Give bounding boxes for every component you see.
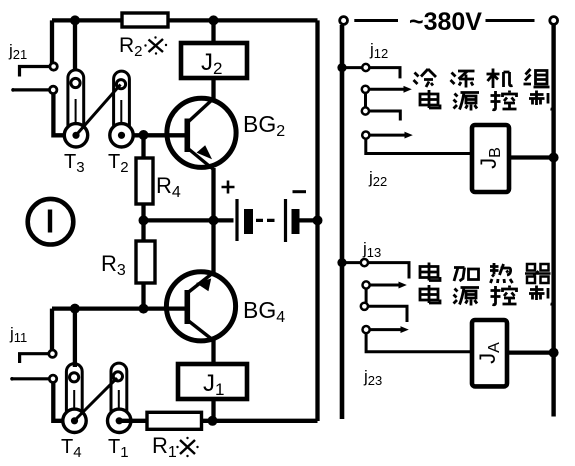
- svg-text:j13: j13: [362, 239, 381, 260]
- relay coil JA: [472, 320, 507, 386]
- contact j23: [361, 303, 407, 322]
- svg-text:R1: R1: [152, 433, 177, 461]
- contact j13 second terminal: [363, 281, 406, 288]
- svg-text:~380V: ~380V: [409, 8, 482, 36]
- node R3 bottom: [139, 304, 149, 314]
- thermometer contact T2: [110, 71, 133, 147]
- wire left bus: [340, 25, 345, 419]
- resistor R2: [122, 13, 168, 27]
- reference mark after R2: [144, 36, 167, 54]
- node battery right: [313, 215, 323, 225]
- thermometer dial symbol 1: [28, 199, 74, 245]
- thermometer contact T3: [64, 70, 87, 147]
- relay coil J1: [178, 364, 247, 399]
- node R4 top junction: [139, 130, 149, 140]
- wire right bus: [551, 25, 555, 417]
- contact j21 upper terminal: [20, 67, 51, 77]
- text block electric heater power control: [420, 263, 554, 306]
- wire top rail mid segment: [168, 18, 318, 22]
- link j13 mechanical: [365, 289, 368, 303]
- wire R3 bottom: [141, 283, 145, 309]
- svg-text:T1: T1: [108, 436, 129, 461]
- svg-text:JB: JB: [476, 147, 504, 169]
- node junction top J2: [209, 15, 219, 25]
- wire mid node row: [144, 218, 214, 222]
- svg-text:j21: j21: [8, 41, 27, 62]
- wire T2 bulb to BG2 base: [122, 133, 187, 137]
- node junction top T3: [70, 15, 80, 25]
- wire T4 drop: [73, 309, 77, 367]
- svg-text:j12: j12: [369, 40, 388, 61]
- reference mark after R1: [176, 437, 198, 457]
- wire J2 bottom to BG2: [211, 78, 215, 99]
- svg-text:R3: R3: [101, 251, 126, 279]
- contact j13: [337, 258, 409, 279]
- svg-text:BG4: BG4: [243, 297, 285, 326]
- wire JA right: [507, 350, 554, 354]
- contact j21 lower terminal: [12, 88, 50, 91]
- svg-text:j11: j11: [9, 324, 27, 345]
- node J1 bottom rail: [208, 416, 218, 426]
- label battery plus: [222, 181, 235, 194]
- contact j12 second terminal: [362, 86, 411, 93]
- wire bottom rail right: [202, 419, 318, 423]
- resistor R3: [136, 241, 155, 283]
- svg-text:j22: j22: [368, 168, 387, 189]
- svg-text:JA: JA: [475, 342, 503, 364]
- wire diagonal T4 bulb to T1 top: [76, 378, 117, 419]
- svg-text:T4: T4: [61, 436, 82, 461]
- wire j21 to T3 bulb: [53, 94, 76, 136]
- svg-text:BG2: BG2: [243, 111, 285, 140]
- wire T3 drop: [73, 20, 77, 71]
- contact j23 second terminal: [363, 326, 473, 352]
- wire j11 to T4 bulb: [53, 383, 74, 421]
- svg-text:J1: J1: [203, 370, 224, 399]
- wire BG2 emitter down: [211, 168, 215, 220]
- wire BG4 base row: [52, 306, 187, 310]
- svg-text:J2: J2: [201, 49, 222, 78]
- node JB bus: [549, 153, 559, 163]
- transistor BG2: [167, 98, 236, 169]
- svg-text:T2: T2: [108, 151, 129, 176]
- label battery minus: [293, 190, 307, 193]
- wire JB right: [509, 155, 554, 159]
- contact j11 lower terminal: [11, 377, 49, 380]
- thermometer contact T1: [108, 363, 131, 432]
- wire 380V dashes: [354, 19, 534, 22]
- wire j11 drop: [50, 309, 54, 351]
- contact j11 upper terminal: [20, 354, 49, 363]
- node T4 drop: [70, 304, 80, 314]
- battery B: [214, 199, 318, 242]
- wire left drop to j21: [50, 20, 54, 63]
- terminal circle 380V right: [550, 17, 558, 25]
- node R4-R3: [139, 215, 149, 225]
- wire R4 bottom: [141, 204, 145, 220]
- wire J2 top: [211, 24, 215, 43]
- wire diagonal T3 bulb to T2 top: [78, 85, 121, 134]
- text block refrigeration unit power control: [414, 69, 554, 111]
- contact j22 second terminal: [362, 132, 472, 154]
- contact j22: [362, 107, 401, 120]
- wire top rail left segment: [52, 18, 122, 22]
- svg-text:R2: R2: [119, 34, 143, 60]
- svg-text:R4: R4: [156, 173, 181, 201]
- node JA bus: [549, 348, 559, 358]
- wire R4 top: [141, 135, 145, 158]
- transistor BG4: [166, 272, 235, 341]
- wire J1 bottom: [211, 399, 215, 421]
- thermometer contact T4: [63, 364, 86, 433]
- wire T1 to R1: [119, 419, 147, 423]
- node emitters battery: [209, 215, 219, 225]
- svg-text:T3: T3: [64, 151, 85, 176]
- terminal circle 380V left: [340, 17, 348, 25]
- wire right edge vertical: [315, 20, 319, 421]
- resistor R1: [147, 412, 202, 429]
- wire BG4 emitter up: [211, 220, 215, 273]
- resistor R4: [136, 158, 153, 204]
- relay coil J2: [181, 43, 247, 78]
- wire R3 top: [141, 220, 145, 241]
- wire BG4 collector to J1: [211, 340, 215, 364]
- relay coil JB: [472, 125, 509, 192]
- contact j12: [337, 63, 400, 78]
- svg-text:j23: j23: [363, 367, 382, 388]
- link j12 mechanical: [364, 93, 367, 107]
